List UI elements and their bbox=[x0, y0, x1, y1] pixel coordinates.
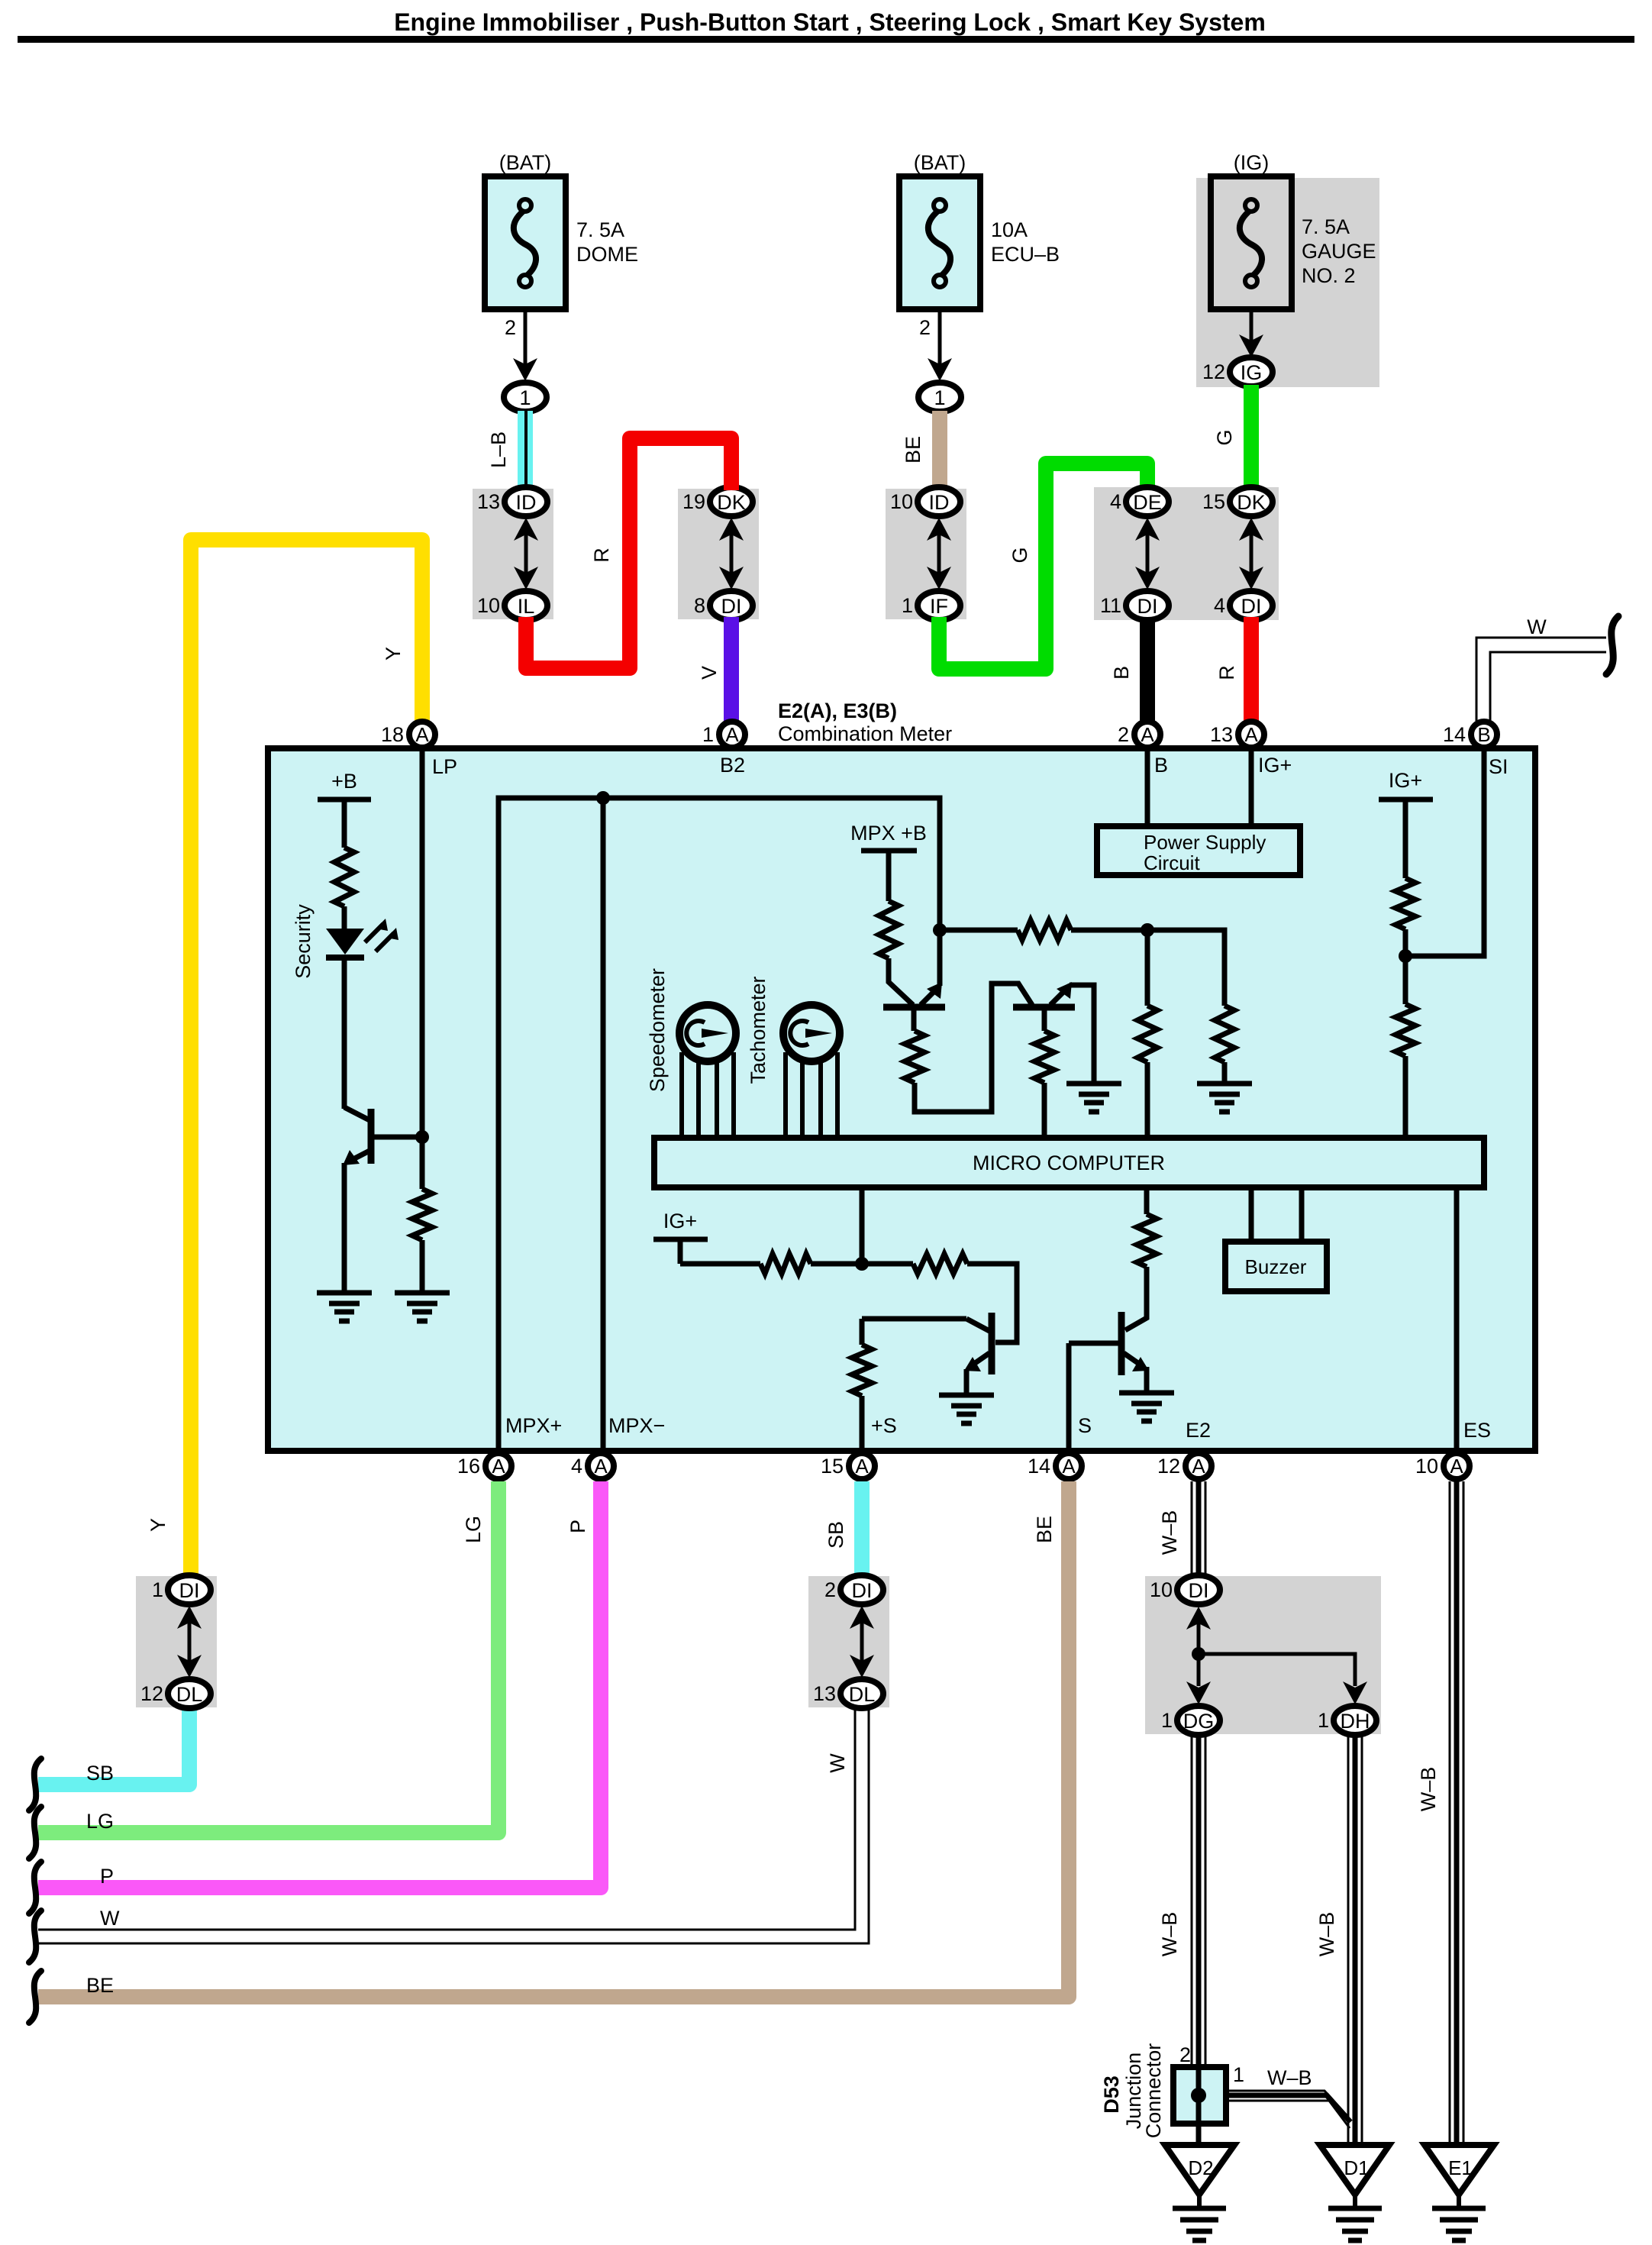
connector DI (pin 4) bbox=[1230, 591, 1273, 620]
svg-text:Speedometer: Speedometer bbox=[646, 968, 669, 1092]
resistor R13 (+S) bbox=[852, 1345, 872, 1396]
svg-text:W: W bbox=[826, 1753, 849, 1773]
svg-text:13: 13 bbox=[813, 1682, 836, 1705]
wire Q5 emitter to ground bbox=[342, 1163, 347, 1293]
wire BE pin14 down-left bbox=[38, 1481, 1069, 1997]
wire micro computer to node bbox=[860, 1187, 865, 1264]
wire P pin4 down-left bbox=[38, 1481, 601, 1888]
wire R12 to Q3 collector bbox=[967, 1264, 1017, 1342]
svg-text:DOME: DOME bbox=[576, 243, 638, 266]
connector DG (pin 1) bbox=[1177, 1706, 1220, 1735]
svg-text:BE: BE bbox=[902, 436, 924, 464]
meter pin 13 A bbox=[1238, 722, 1264, 748]
wire SB (yellow branch) DL to left bbox=[38, 1707, 189, 1785]
svg-text:(BAT): (BAT) bbox=[499, 151, 552, 174]
svg-text:MPX+: MPX+ bbox=[505, 1414, 562, 1437]
buzzer box bbox=[1225, 1242, 1327, 1291]
connector 1 (DOME feed) bbox=[504, 383, 547, 412]
wire SB pin15 to DI bbox=[854, 1481, 870, 1578]
svg-text:A: A bbox=[1062, 1455, 1076, 1478]
svg-text:ID: ID bbox=[929, 491, 950, 514]
ground E1 bbox=[1425, 2145, 1494, 2208]
micro computer box bbox=[654, 1138, 1484, 1187]
transistor Q2 bbox=[1013, 982, 1075, 1007]
svg-text:Y: Y bbox=[147, 1518, 169, 1532]
wire R2 to ground bbox=[420, 1240, 425, 1293]
ground (Q5 emitter) bbox=[317, 1293, 372, 1321]
resistor R1 (+B) bbox=[334, 848, 354, 906]
svg-text:E1: E1 bbox=[1448, 2156, 1473, 2179]
wire MPX- pin4 up bbox=[601, 798, 606, 1452]
node IG+/SI bbox=[1399, 949, 1412, 963]
wire W-B pin10 to E1 bbox=[1450, 1481, 1463, 2146]
arrow into connector 1 (ECU-B) bbox=[928, 358, 952, 381]
wire R6 to node2 bbox=[1071, 928, 1147, 933]
ground (R8) bbox=[1197, 1084, 1252, 1112]
svg-text:DK: DK bbox=[1237, 491, 1266, 514]
svg-text:GAUGE: GAUGE bbox=[1302, 240, 1376, 263]
svg-text:BE: BE bbox=[1033, 1516, 1056, 1543]
wire pin13 to PSU bbox=[1249, 748, 1254, 826]
node Q5 base / LP bbox=[415, 1130, 429, 1144]
wire LED to Q5 bbox=[342, 958, 347, 1109]
svg-text:W–B: W–B bbox=[1158, 1912, 1181, 1957]
connector DE (pin 4) bbox=[1126, 487, 1169, 516]
offpage squiggle W-left bbox=[29, 1911, 41, 1962]
svg-text:IL: IL bbox=[518, 595, 535, 618]
svg-text:14: 14 bbox=[1028, 1455, 1050, 1478]
wire bus to Q1 emitter bbox=[937, 930, 943, 986]
svg-text:2: 2 bbox=[824, 1578, 836, 1601]
svg-text:W–B: W–B bbox=[1417, 1767, 1440, 1812]
svg-text:1: 1 bbox=[1161, 1709, 1173, 1732]
svg-text:A: A bbox=[1244, 723, 1258, 746]
fuse 7.5A GAUGE NO.2 bbox=[1211, 176, 1292, 309]
svg-text:1: 1 bbox=[519, 386, 531, 409]
combination meter box bbox=[268, 748, 1535, 1451]
svg-text:P: P bbox=[566, 1520, 589, 1533]
meter pin 14 B bbox=[1471, 722, 1497, 748]
connector 1 (ECU-B feed) bbox=[918, 383, 961, 412]
svg-text:10A: 10A bbox=[991, 218, 1028, 241]
svg-text:1: 1 bbox=[1318, 1709, 1329, 1732]
resistor R9 (IG+ upper) bbox=[1395, 878, 1415, 929]
connector DI (pin 8) bbox=[710, 591, 753, 620]
svg-text:ID: ID bbox=[516, 491, 537, 514]
ground bars D2 bbox=[1173, 2208, 1226, 2240]
svg-text:7. 5A: 7. 5A bbox=[576, 218, 624, 241]
resistor R2 (LP) bbox=[412, 1189, 432, 1240]
svg-text:14: 14 bbox=[1443, 723, 1466, 746]
ground (Q3 emitter) bbox=[939, 1395, 994, 1423]
svg-text:V: V bbox=[698, 666, 721, 680]
svg-text:Connector: Connector bbox=[1142, 2043, 1165, 2139]
connector DK (pin 15) bbox=[1230, 487, 1273, 516]
svg-text:LG: LG bbox=[462, 1516, 485, 1543]
svg-text:LP: LP bbox=[432, 755, 457, 778]
resistor R3 (MPX +B) bbox=[879, 901, 899, 958]
svg-text:D2: D2 bbox=[1188, 2156, 1213, 2179]
svg-text:18: 18 bbox=[381, 723, 404, 746]
svg-text:BE: BE bbox=[86, 1974, 114, 1997]
wire R (red) DI-4 to meter pin 13 bbox=[1244, 617, 1259, 722]
svg-text:W–B: W–B bbox=[1267, 2066, 1312, 2089]
svg-text:L–B: L–B bbox=[487, 431, 510, 468]
wire G gauge IG to DK bbox=[1244, 385, 1259, 490]
wire R14 to Q4 collector bbox=[1125, 1267, 1147, 1330]
connector DI (pin 11) bbox=[1126, 591, 1169, 620]
wire Q3 emitter to ground bbox=[964, 1369, 970, 1395]
power supply circuit box bbox=[1097, 826, 1300, 875]
wire W-B D53 to D2 bbox=[1196, 2124, 1202, 2147]
svg-text:2: 2 bbox=[919, 316, 931, 339]
arrow into DH bbox=[1343, 1681, 1367, 1704]
svg-text:B: B bbox=[1154, 754, 1168, 777]
svg-text:11: 11 bbox=[1100, 594, 1121, 617]
svg-text:LG: LG bbox=[86, 1810, 114, 1833]
svg-text:R: R bbox=[1215, 665, 1238, 680]
svg-text:E2(A), E3(B): E2(A), E3(B) bbox=[778, 699, 897, 722]
svg-text:S: S bbox=[1078, 1414, 1092, 1437]
svg-text:D53: D53 bbox=[1100, 2075, 1123, 2114]
svg-text:DH: DH bbox=[1341, 1710, 1370, 1733]
transistor Q4 (S output) bbox=[1069, 1312, 1149, 1375]
LED Security bbox=[326, 919, 398, 958]
wire fuse GAUGE to connector IG bbox=[1250, 309, 1254, 347]
svg-text:10: 10 bbox=[1415, 1455, 1438, 1478]
svg-text:B2: B2 bbox=[720, 754, 745, 777]
connector box ID/IL bbox=[473, 489, 553, 619]
svg-text:IF: IF bbox=[930, 595, 948, 618]
wire Q1 base down bbox=[912, 1007, 917, 1031]
junction pass-through arrow DI-DL (2-13) bbox=[850, 1606, 874, 1678]
svg-text:1: 1 bbox=[934, 386, 945, 409]
wire Q3 base from +S node bbox=[862, 1316, 966, 1322]
node bus/Q1 bbox=[933, 923, 947, 937]
connector DI (pin 1) bbox=[168, 1575, 211, 1604]
wire W-B DH to D1 bbox=[1348, 1733, 1362, 2146]
wire W (white) DL down-left bbox=[38, 1707, 869, 1943]
ground bars E1 bbox=[1432, 2208, 1486, 2240]
wire R7 to micro computer bbox=[1145, 1062, 1150, 1135]
node DI split bbox=[1192, 1647, 1205, 1661]
node +S drive bbox=[855, 1257, 869, 1271]
wire split to DH bbox=[1199, 1654, 1355, 1686]
connector DK (pin 19) bbox=[710, 487, 753, 516]
svg-text:SI: SI bbox=[1489, 755, 1508, 778]
svg-text:10: 10 bbox=[1150, 1578, 1173, 1601]
wires micro computer to buzzer bbox=[1251, 1187, 1302, 1242]
meter pin 16 A bbox=[486, 1453, 511, 1479]
wire node to R6 bbox=[940, 928, 1018, 933]
wire fuse DOME to connector 1 bbox=[524, 309, 528, 370]
transistor Q1 (MPX driver) bbox=[883, 982, 945, 1007]
svg-text:4: 4 bbox=[1214, 594, 1225, 617]
connector IG (gauge feed) bbox=[1230, 357, 1273, 386]
svg-text:A: A bbox=[855, 1455, 869, 1478]
svg-text:2: 2 bbox=[1179, 2043, 1191, 2066]
node D53 bbox=[1191, 2088, 1206, 2103]
connector IL (pin 10) bbox=[505, 591, 547, 620]
offpage squiggle W bbox=[1606, 616, 1618, 674]
meter pin 10 A bbox=[1444, 1453, 1470, 1479]
svg-text:2: 2 bbox=[505, 316, 516, 339]
meter pin 4 A bbox=[588, 1453, 614, 1479]
wire LG pin16 down-left bbox=[38, 1481, 499, 1833]
svg-text:G: G bbox=[1008, 547, 1031, 563]
svg-text:DI: DI bbox=[1241, 595, 1262, 618]
meter pin 1 A bbox=[719, 722, 745, 748]
svg-text:Security: Security bbox=[292, 904, 315, 979]
svg-text:A: A bbox=[1192, 1455, 1205, 1478]
wire W-B through D53 bbox=[1196, 2067, 1202, 2124]
svg-text:Combination Meter: Combination Meter bbox=[778, 722, 952, 745]
wire Y (yellow) meter pin 18 to DI connector bbox=[191, 540, 422, 1578]
power tap MPX +B bbox=[861, 851, 917, 901]
connector DL (pin 12) bbox=[168, 1679, 211, 1708]
svg-text:12: 12 bbox=[1202, 360, 1225, 383]
svg-text:(BAT): (BAT) bbox=[914, 151, 966, 174]
svg-text:Y: Y bbox=[382, 647, 405, 661]
svg-text:10: 10 bbox=[477, 594, 500, 617]
svg-text:2: 2 bbox=[1118, 723, 1129, 746]
junction pass-through arrow DE-DI bbox=[1135, 518, 1160, 590]
connector box DI/DL (1-12) bbox=[136, 1576, 217, 1707]
wire MPX bus bbox=[499, 798, 940, 1452]
svg-text:4: 4 bbox=[571, 1455, 582, 1478]
svg-text:DI: DI bbox=[179, 1579, 200, 1602]
wire R9 to node bbox=[1403, 929, 1408, 1004]
junction pass-through arrow ID-IF bbox=[927, 518, 951, 590]
wire R4 to Q2 collector bbox=[915, 984, 1032, 1112]
svg-text:A: A bbox=[1450, 1455, 1463, 1478]
svg-text:ES: ES bbox=[1463, 1419, 1491, 1442]
svg-text:E2: E2 bbox=[1186, 1419, 1211, 1442]
svg-text:+B: +B bbox=[331, 770, 357, 793]
junction pass-through arrow DI-DL (1-12) bbox=[177, 1606, 202, 1678]
svg-text:MPX +B: MPX +B bbox=[850, 822, 927, 845]
ground bars D1 bbox=[1328, 2208, 1382, 2240]
svg-text:DK: DK bbox=[717, 491, 746, 514]
meter pin 15 A bbox=[849, 1453, 875, 1479]
transistor Q5 (security LED driver) bbox=[343, 1107, 371, 1165]
svg-text:16: 16 bbox=[457, 1455, 480, 1478]
svg-text:7. 5A: 7. 5A bbox=[1302, 215, 1350, 238]
fuse 7.5A DOME bbox=[485, 176, 566, 309]
resistor R4 (Q1 base) bbox=[905, 1031, 924, 1083]
svg-text:4: 4 bbox=[1110, 490, 1121, 513]
wire DI to junction bbox=[1197, 1613, 1201, 1654]
svg-text:IG+: IG+ bbox=[663, 1210, 697, 1232]
wire W-B D53 branch bbox=[1226, 2091, 1350, 2128]
title rule bbox=[18, 36, 1634, 43]
wire R5 to micro computer bbox=[1042, 1083, 1047, 1135]
svg-text:IG+: IG+ bbox=[1389, 769, 1422, 792]
ground D1 bbox=[1320, 2145, 1389, 2208]
connector box DE/DI DK/DI bbox=[1094, 487, 1279, 620]
offpage squiggle LG bbox=[29, 1807, 41, 1859]
svg-text:W–B: W–B bbox=[1158, 1510, 1181, 1555]
wire W-B DG to D53 bbox=[1192, 1733, 1205, 2069]
connector DH (pin 1) bbox=[1334, 1706, 1376, 1735]
arrow into DG bbox=[1186, 1681, 1211, 1704]
svg-text:DL: DL bbox=[849, 1683, 876, 1706]
svg-text:DI: DI bbox=[1137, 595, 1158, 618]
power tap IG+ right bbox=[1379, 799, 1433, 878]
svg-text:12: 12 bbox=[140, 1682, 163, 1705]
connector ID (pin 13) bbox=[505, 487, 547, 516]
offpage squiggle P bbox=[29, 1862, 41, 1914]
gauge Speedometer bbox=[679, 1005, 736, 1135]
svg-text:DI: DI bbox=[1189, 1579, 1209, 1602]
arrow into connector IG bbox=[1239, 334, 1263, 357]
wire R3 to Q1 collector bbox=[889, 958, 913, 1005]
svg-text:P: P bbox=[100, 1865, 114, 1888]
wire BE connector 1 to ID bbox=[932, 411, 947, 490]
connector box DI/DG/DH bbox=[1145, 1576, 1381, 1734]
svg-text:A: A bbox=[492, 1455, 505, 1478]
svg-text:13: 13 bbox=[477, 490, 500, 513]
svg-text:SB: SB bbox=[86, 1762, 114, 1785]
svg-text:A: A bbox=[725, 723, 739, 746]
junction connector D53 box bbox=[1173, 2067, 1226, 2124]
wire pin2 to PSU bbox=[1145, 748, 1150, 826]
svg-text:B: B bbox=[1477, 723, 1490, 746]
wire node2 down bbox=[1145, 930, 1150, 1006]
meter pin 18 A bbox=[409, 722, 435, 748]
transistor Q3 (+S output) bbox=[964, 1313, 992, 1374]
node pullup junction bbox=[1141, 923, 1154, 937]
junction pass-through arrow DK-DI bbox=[719, 518, 744, 590]
wire split to DG bbox=[1197, 1654, 1201, 1686]
resistor R11 bbox=[760, 1254, 811, 1274]
svg-text:Buzzer: Buzzer bbox=[1245, 1255, 1307, 1278]
wire R13 to pin 15 bbox=[860, 1396, 865, 1452]
connector DI (pin 10, junction) bbox=[1177, 1575, 1220, 1604]
svg-text:12: 12 bbox=[1157, 1455, 1180, 1478]
wire R10 to micro computer bbox=[1403, 1056, 1408, 1135]
svg-text:15: 15 bbox=[821, 1455, 844, 1478]
svg-text:DI: DI bbox=[852, 1579, 873, 1602]
ground (Q4 emitter) bbox=[1119, 1393, 1174, 1421]
svg-text:ECU–B: ECU–B bbox=[991, 243, 1060, 266]
resistor R6 (horizontal) bbox=[1018, 920, 1071, 940]
resistor R8 bbox=[1215, 1006, 1234, 1062]
connector IF (pin 1) bbox=[918, 591, 960, 620]
svg-text:SB: SB bbox=[824, 1521, 847, 1549]
wire +S pin15 up bbox=[860, 1319, 865, 1345]
wire Q4 emitter to ground bbox=[1144, 1367, 1150, 1393]
fuse 10A ECU-B bbox=[899, 176, 980, 309]
wire node to R12 bbox=[862, 1261, 913, 1267]
svg-text:+S: +S bbox=[871, 1414, 897, 1437]
connector box DK/DI bbox=[678, 489, 759, 619]
junction pass-through arrow DK-DI(4) bbox=[1239, 518, 1263, 590]
svg-text:19: 19 bbox=[682, 490, 705, 513]
svg-text:D1: D1 bbox=[1344, 2156, 1369, 2179]
wire W-B pin12 to DI bbox=[1192, 1481, 1205, 1578]
wire L-B (blue-black) connector 1 to ID bbox=[525, 411, 526, 490]
wire fuse ECU-B to connector 1 bbox=[938, 309, 942, 370]
connector DL (pin 13) bbox=[841, 1679, 883, 1708]
wire S pin14 to Q4 base bbox=[1066, 1343, 1072, 1452]
gray backdrop GAUGE block bbox=[1196, 178, 1379, 387]
svg-text:1: 1 bbox=[1233, 2063, 1244, 2086]
resistor R7 bbox=[1137, 1006, 1157, 1062]
resistor R14 (Q4 collector) bbox=[1137, 1214, 1157, 1267]
offpage squiggle SB bbox=[29, 1759, 41, 1811]
svg-text:B: B bbox=[1110, 666, 1133, 680]
svg-text:MICRO COMPUTER: MICRO COMPUTER bbox=[973, 1152, 1165, 1174]
svg-text:Tachometer: Tachometer bbox=[747, 976, 770, 1084]
svg-text:IG: IG bbox=[1241, 361, 1263, 384]
svg-text:10: 10 bbox=[890, 490, 913, 513]
wire SI pin14 to node bbox=[1405, 748, 1484, 956]
svg-text:1: 1 bbox=[152, 1578, 163, 1601]
power tap +B bbox=[318, 799, 371, 848]
svg-text:A: A bbox=[415, 723, 429, 746]
junction pass-through arrow ID-IL bbox=[514, 518, 538, 590]
wire V (violet) DI to meter pin 1 bbox=[724, 617, 739, 722]
power tap IG+ mid bbox=[653, 1239, 760, 1264]
resistor R10 (IG+ lower) bbox=[1395, 1004, 1415, 1056]
wire ES micro computer to pin 10 bbox=[1454, 1187, 1460, 1452]
svg-text:Power Supply: Power Supply bbox=[1144, 831, 1266, 854]
svg-text:13: 13 bbox=[1210, 723, 1233, 746]
svg-text:R: R bbox=[590, 548, 613, 563]
svg-text:8: 8 bbox=[694, 594, 705, 617]
wire node2 to corner bbox=[1147, 930, 1224, 1006]
svg-text:DE: DE bbox=[1133, 491, 1162, 514]
wire B (black) DI-11 to meter pin 2 bbox=[1140, 617, 1155, 722]
wire micro computer to R14 bbox=[1144, 1187, 1150, 1214]
resistor R12 bbox=[913, 1254, 967, 1274]
wire LP pin18 down bbox=[420, 748, 425, 1189]
wire G (green) IF to DE bbox=[939, 464, 1147, 669]
svg-text:15: 15 bbox=[1202, 490, 1225, 513]
wire Q5 base to LP node bbox=[371, 1135, 422, 1140]
svg-text:IG+: IG+ bbox=[1258, 754, 1292, 777]
connector ID (pin 10, ECU-B) bbox=[918, 487, 960, 516]
svg-text:1: 1 bbox=[902, 594, 913, 617]
svg-text:A: A bbox=[594, 1455, 608, 1478]
svg-text:W: W bbox=[100, 1907, 120, 1930]
ground (Q2 emitter) bbox=[1066, 1084, 1121, 1112]
resistor R5 (Q2 base) bbox=[1034, 1031, 1054, 1083]
arrow into connector 1 (DOME) bbox=[513, 358, 537, 381]
wire R1 to LED bbox=[342, 906, 347, 929]
meter pin 14 A bbox=[1056, 1453, 1082, 1479]
connector box ID/IF bbox=[886, 489, 966, 619]
meter pin 12 A bbox=[1186, 1453, 1212, 1479]
wire R8 to ground bbox=[1222, 1062, 1228, 1084]
svg-text:DI: DI bbox=[721, 595, 742, 618]
wire W (white) meter pin 14B to offpage bbox=[1476, 638, 1606, 721]
svg-text:DL: DL bbox=[176, 1683, 203, 1706]
node MPX- junction bbox=[596, 791, 610, 805]
gauge Tachometer bbox=[783, 1005, 840, 1135]
svg-text:DG: DG bbox=[1183, 1710, 1215, 1733]
wire R11 to node bbox=[811, 1261, 862, 1267]
svg-text:1: 1 bbox=[702, 723, 714, 746]
connector DI (pin 2) bbox=[841, 1575, 883, 1604]
wire Q2 emitter to ground bbox=[1070, 985, 1094, 1084]
svg-text:(IG): (IG) bbox=[1234, 151, 1270, 174]
ground (LP) bbox=[395, 1293, 450, 1321]
svg-text:MPX−: MPX− bbox=[608, 1414, 665, 1437]
arrow into DI (10) bbox=[1186, 1607, 1211, 1630]
offpage squiggle BE bbox=[29, 1971, 41, 2023]
